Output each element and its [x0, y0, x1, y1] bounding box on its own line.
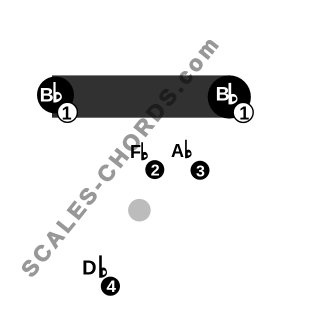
finger badge 1 left [57, 102, 77, 123]
svg-text:1: 1 [62, 103, 72, 123]
svg-text:2: 2 [151, 163, 160, 180]
svg-text:D: D [82, 257, 96, 279]
svg-text:4: 4 [106, 277, 116, 296]
svg-text:1: 1 [239, 104, 249, 124]
finger badge 4 [101, 277, 120, 297]
svg-text:B: B [216, 83, 230, 105]
svg-text:3: 3 [196, 163, 205, 180]
svg-text:A: A [171, 141, 184, 161]
note label Db [82, 255, 107, 279]
fret position marker (gray dot) [128, 199, 151, 222]
finger badge 3 [191, 161, 210, 181]
barre bar [52, 75, 230, 117]
note label Bb left [40, 82, 62, 106]
note label Fb [130, 142, 148, 162]
fret disc left (Bb) [37, 77, 74, 114]
note label Bb right [216, 83, 238, 106]
finger badge 2 [145, 160, 164, 179]
svg-text:B: B [40, 84, 54, 106]
fret disc right (Bb) [208, 75, 251, 118]
finger badge 1 right [233, 102, 253, 123]
note label Ab [171, 140, 192, 161]
